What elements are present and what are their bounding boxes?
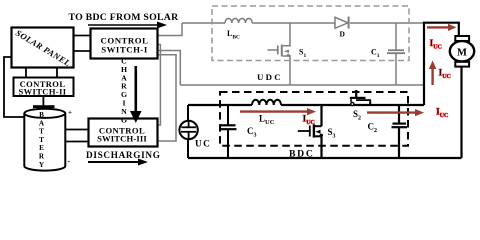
svg-text:R: R [39, 153, 45, 161]
svg-text:T: T [39, 128, 44, 136]
svg-text:+: + [68, 109, 72, 117]
svg-text:SWITCH-I: SWITCH-I [101, 44, 148, 54]
svg-text:BDC: BDC [289, 148, 315, 159]
svg-text:SWITCH-III: SWITCH-III [97, 133, 147, 143]
svg-text:UC: UC [195, 140, 211, 150]
svg-text:A: A [39, 119, 45, 127]
svg-text:M: M [457, 47, 467, 58]
svg-text:T: T [39, 136, 44, 144]
svg-text:E: E [39, 144, 44, 152]
svg-text:TO BDC FROM SOLAR: TO BDC FROM SOLAR [69, 12, 180, 23]
svg-text:Y: Y [39, 161, 45, 169]
svg-text:B: B [39, 111, 44, 119]
svg-text:G: G [121, 115, 127, 124]
svg-text:SWITCH-II: SWITCH-II [18, 87, 66, 97]
svg-text:D: D [340, 30, 346, 39]
svg-text:DISCHARGING: DISCHARGING [86, 150, 161, 160]
svg-text:-: - [68, 157, 71, 166]
svg-text:UDC: UDC [257, 72, 283, 82]
